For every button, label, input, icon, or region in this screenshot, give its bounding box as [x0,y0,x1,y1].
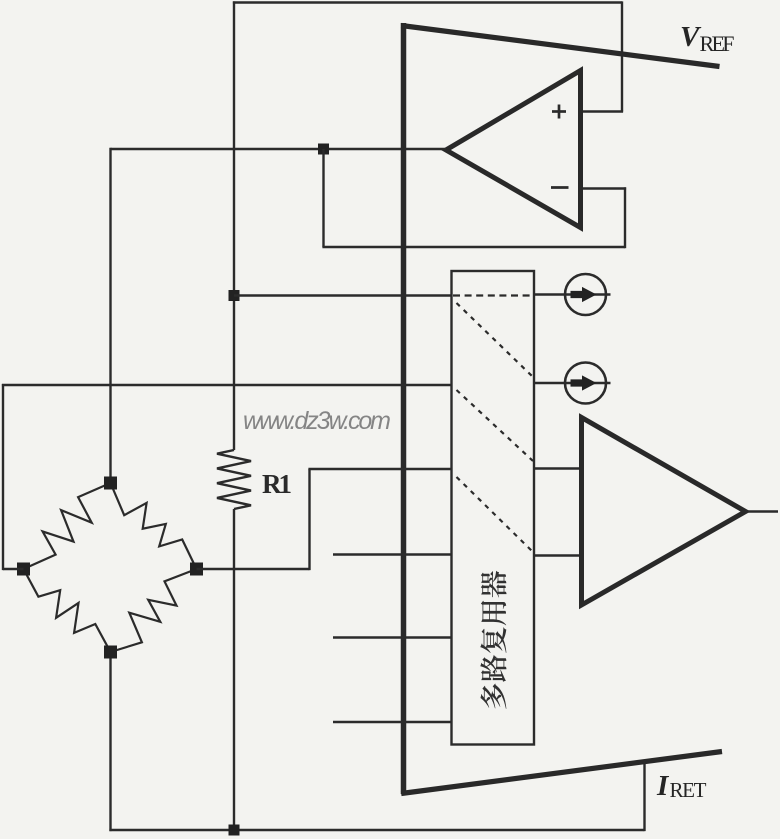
svg-text:I: I [656,770,670,802]
U1 plus sign [552,105,566,119]
svg-text:RET: RET [670,778,707,802]
wire amp output [746,510,779,512]
wire feedback vertical [322,149,324,247]
wire chip edge vertical (thick) [401,23,407,794]
wire current source 2 lead [534,382,611,384]
wire - input [583,187,626,189]
resistor bridge arm top-left [24,483,111,569]
wire mux row2 feed [2,384,452,386]
resistor bridge arm bottom-right [111,569,197,652]
wire mux row6 stub [333,721,452,723]
wire current source 1 lead [534,293,611,295]
label multiplexer (Chinese, rotated) [480,571,506,709]
current source CS1 [565,274,606,315]
wire bridge top feed [109,148,111,483]
op-amp U2 output amplifier [582,418,746,606]
wire amp input lower [534,554,583,556]
mux dashed row1 [453,294,533,296]
mux dashed diagonal 1 [457,303,534,377]
resistor R1 [217,450,251,509]
wire top rail [233,1,622,3]
wire mux row3 feed [308,468,451,470]
wire U1 output [111,148,447,150]
svg-text:www.dz3w.com: www.dz3w.com [243,407,391,435]
wire + input [583,110,623,112]
resistor bridge arm bottom-left [24,569,111,652]
op-amp U1 buffer [446,71,581,228]
wire left rail x=234 lower [233,509,235,830]
svg-text:REF: REF [700,31,735,56]
node bridge left [17,563,30,576]
node bottom junction [229,825,240,836]
node bridge bottom [104,646,117,659]
wire bridge right stub [197,568,310,570]
resistor bridge arm top-right [111,483,197,569]
wire bottom rail [109,829,644,831]
wire mux row5 stub [333,636,452,638]
wire IRET riser [643,760,645,831]
mux dashed diagonal 2 [457,390,534,461]
wire bridge bottom drop [109,652,111,831]
wire mux row4 stub [333,553,452,555]
node R1 top junction [229,290,240,301]
wire far-left vertical [2,384,4,570]
wire bridge left stub [3,568,24,570]
svg-text:R1: R1 [262,469,292,499]
wire feedback bottom [322,246,625,248]
wire right drop to + input [621,1,623,111]
wire mux row1 feed [234,294,452,296]
wire left rail x=234 upper [233,1,235,450]
wire amp input upper [534,467,583,469]
wire bridge right riser [308,469,310,570]
wire IRET slanted lead [401,752,722,794]
U1 minus sign [551,186,569,189]
current source CS2 [565,363,606,404]
node bridge right [190,563,203,576]
mux dashed diagonal 3 [457,477,534,552]
node feedback junction [318,144,329,155]
multiplexer box [452,271,535,745]
wire VREF slanted lead [401,26,719,67]
wire feedback right vertical [624,187,626,248]
node bridge top [104,477,117,490]
